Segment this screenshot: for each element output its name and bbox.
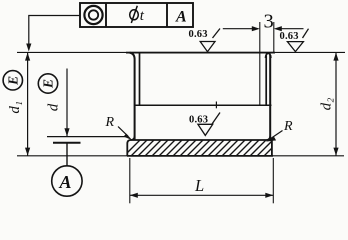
svg-text:E: E	[5, 76, 20, 86]
roughness triangle	[200, 42, 215, 52]
L extension line left	[129, 158, 131, 203]
left wall outer	[130, 53, 135, 141]
feature control frame box	[80, 3, 193, 27]
dimension 3 arrow left	[252, 26, 260, 31]
svg-text:R: R	[105, 115, 115, 130]
bore bottom line	[135, 104, 272, 106]
d1 arrow down	[25, 148, 30, 156]
svg-text:0.63: 0.63	[189, 29, 208, 40]
R left arrowhead	[124, 134, 133, 141]
base line	[17, 155, 344, 157]
right fillet	[267, 136, 271, 140]
R right arrowhead	[266, 137, 276, 142]
L extension line right	[272, 158, 274, 203]
top surface line	[17, 51, 345, 53]
dimension 3 arrow right	[274, 26, 282, 31]
roughness triangle	[287, 42, 303, 52]
envelope symbol E circle for d1	[3, 71, 22, 90]
envelope symbol E circle for d	[38, 74, 57, 93]
concentricity symbol	[84, 6, 102, 24]
d2 arrow down	[333, 148, 338, 156]
right rim cap	[266, 53, 271, 58]
svg-text:3: 3	[264, 11, 274, 33]
L dimension line	[130, 194, 273, 196]
tolerance value phi-t	[130, 6, 139, 23]
flange outline	[127, 140, 272, 156]
roughness triangle	[198, 124, 213, 135]
dimension d line	[66, 69, 68, 137]
right wall outer	[269, 55, 271, 140]
svg-text:d₁: d₁	[7, 101, 23, 114]
L arrow right	[265, 193, 273, 198]
roughness slash	[213, 29, 221, 39]
bore extension line for 3	[259, 22, 261, 105]
R right leader	[270, 131, 283, 140]
datum axis line short	[53, 142, 81, 144]
svg-text:d: d	[46, 103, 62, 111]
svg-text:0.63: 0.63	[280, 31, 299, 42]
svg-text:L: L	[194, 176, 204, 195]
leader arrowhead	[26, 44, 31, 52]
R left leader	[118, 127, 128, 137]
d2 arrow up	[333, 53, 338, 61]
dimension d2 line	[335, 52, 337, 155]
svg-text:d₂: d₂	[319, 98, 335, 111]
datum circle A	[52, 166, 82, 196]
hatching	[118, 132, 295, 162]
L arrow left	[130, 193, 138, 198]
roughness slash	[212, 113, 220, 125]
svg-text:A: A	[175, 9, 187, 26]
leader from frame	[29, 16, 80, 45]
svg-text:E: E	[41, 79, 56, 89]
d1 arrow up	[25, 53, 30, 61]
d arrow down	[64, 128, 69, 136]
dimension 3 line left segment	[223, 28, 258, 30]
left fillet	[131, 136, 135, 140]
dimension d1 line	[27, 52, 29, 155]
svg-text:A: A	[59, 172, 72, 192]
center tick	[215, 102, 217, 109]
dimension 3 line right segment	[276, 28, 304, 30]
right wall inner	[265, 56, 267, 105]
datum stem	[66, 143, 68, 166]
datum axis line long	[47, 136, 126, 138]
right extension line for 3	[273, 22, 275, 54]
left wall inner	[139, 53, 141, 106]
svg-text:R: R	[283, 119, 293, 134]
roughness slash	[303, 29, 309, 38]
